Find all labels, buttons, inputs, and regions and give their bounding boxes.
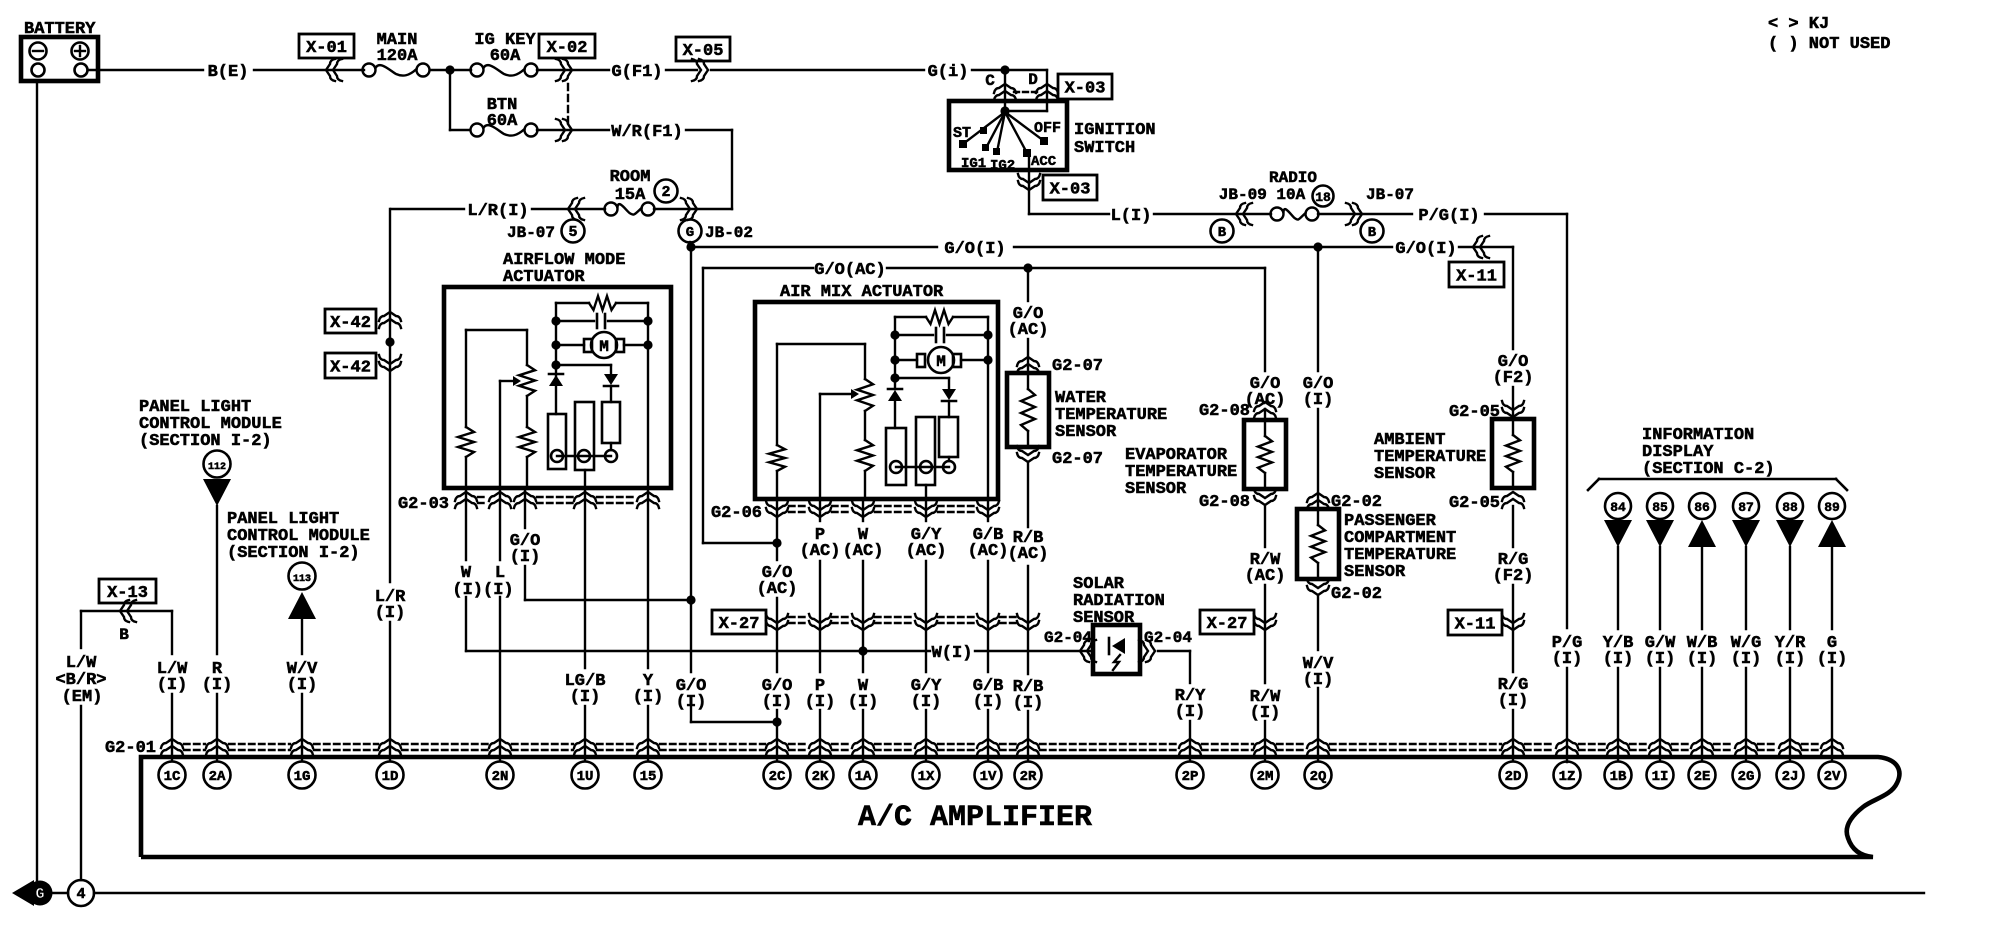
wire R/W to pin 2M <box>1245 505 1286 761</box>
junction JB-07 B <box>1318 203 1412 243</box>
svg-text:2: 2 <box>661 184 670 201</box>
svg-text:X-42: X-42 <box>330 314 371 333</box>
ignition switch label <box>1074 121 1156 158</box>
svg-text:2V: 2V <box>1824 769 1841 785</box>
svg-text:OFF: OFF <box>1034 120 1061 137</box>
svg-text:(AC): (AC) <box>1008 321 1049 340</box>
svg-text:(I): (I) <box>202 676 233 695</box>
pin 2P <box>1177 762 1204 789</box>
svg-text:G2-05: G2-05 <box>1449 494 1500 513</box>
svg-text:X-42: X-42 <box>330 359 371 378</box>
ground junction 4 <box>52 880 94 906</box>
svg-text:(AC): (AC) <box>757 580 798 599</box>
svg-text:60A: 60A <box>487 112 518 131</box>
connector G2-04 right <box>1139 629 1192 662</box>
connector G2-01 row <box>105 739 1843 758</box>
svg-text:(SECTION I-2): (SECTION I-2) <box>139 432 272 451</box>
svg-text:(AC): (AC) <box>1008 545 1049 564</box>
svg-text:X-02: X-02 <box>547 39 588 58</box>
svg-text:X-03: X-03 <box>1065 80 1106 99</box>
connector X-03 bottom <box>1018 155 1097 214</box>
labels W L (I)(I) <box>452 564 513 600</box>
pin 1D <box>377 762 404 789</box>
air mix actuator <box>755 283 998 499</box>
wire R/G to pin 2D <box>1493 506 1534 761</box>
battery <box>21 20 98 81</box>
wire W/V(I) to pin 1G <box>287 619 318 761</box>
connector G2-02 bottom <box>1307 579 1382 604</box>
svg-text:(AC): (AC) <box>906 542 947 561</box>
svg-text:ACC: ACC <box>1031 154 1057 170</box>
wire L/W(I) to pin 1C <box>157 611 188 761</box>
wire W(I) horizontal <box>466 644 1093 663</box>
svg-text:(AC): (AC) <box>968 542 1009 561</box>
svg-text:5: 5 <box>568 224 577 241</box>
svg-text:X-01: X-01 <box>306 39 347 58</box>
svg-text:(AC): (AC) <box>843 542 884 561</box>
svg-text:2D: 2D <box>1505 769 1522 785</box>
svg-text:(I): (I) <box>1552 650 1583 669</box>
pin 2Q <box>1305 762 1332 789</box>
connector G2-04 left <box>1044 629 1096 662</box>
wire W/R down to ROOM fuse <box>731 130 733 209</box>
fuse RADIO 10A <box>1219 169 1414 221</box>
svg-text:(I): (I) <box>510 548 541 567</box>
wire G/W(I) to amplifier <box>1645 547 1676 761</box>
svg-text:(I): (I) <box>633 688 664 707</box>
wire L(I) ignition to RADIO fuse <box>1029 203 1271 226</box>
svg-text:G/O(I): G/O(I) <box>1395 240 1456 259</box>
wire R(I) to pin 2A <box>202 506 233 761</box>
svg-text:(AC): (AC) <box>1245 567 1286 586</box>
A/C amplifier box <box>141 757 1899 857</box>
connector X-42 upper <box>325 309 401 333</box>
wire R/Y to pin 2P <box>1158 651 1206 761</box>
evaporator temperature sensor <box>1125 420 1286 499</box>
pin 1B <box>1605 762 1632 789</box>
connector G2-05 top <box>1449 401 1524 422</box>
wire LG/B(I) to pin 1U <box>565 488 606 761</box>
svg-text:1U: 1U <box>577 769 594 785</box>
svg-text:(I)(I): (I)(I) <box>452 581 513 600</box>
wire L/R(I) room fuse row <box>391 198 605 221</box>
pin 1U <box>572 762 599 789</box>
svg-text:X-27: X-27 <box>1207 615 1248 634</box>
connector G2-07 top <box>1017 357 1103 376</box>
svg-text:89: 89 <box>1824 500 1840 515</box>
wire W(AC) to pin 1A <box>843 499 884 761</box>
fuse IG KEY 60A <box>471 31 538 77</box>
svg-text:(SECTION C-2): (SECTION C-2) <box>1642 460 1775 479</box>
svg-text:SENSOR: SENSOR <box>1055 423 1117 442</box>
wire P/G down to pin 1Z <box>1566 214 1568 762</box>
pin 2R <box>1015 762 1042 789</box>
svg-text:G2-07: G2-07 <box>1052 450 1103 469</box>
svg-text:(I): (I) <box>1175 703 1206 722</box>
connector X-01 <box>299 34 354 81</box>
pin 1C <box>159 762 186 789</box>
svg-text:(I): (I) <box>1603 650 1634 669</box>
fuse ROOM 15A <box>605 168 678 216</box>
svg-text:(I): (I) <box>1645 650 1676 669</box>
wire W/V to pin 2Q <box>1303 595 1334 761</box>
svg-text:JB-02: JB-02 <box>705 224 753 242</box>
solar radiation sensor label <box>1073 575 1165 628</box>
information display terminal 88 <box>1776 493 1804 547</box>
pin 1I <box>1647 762 1674 789</box>
wire battery negative to ground <box>36 81 38 880</box>
svg-text:G/O(I): G/O(I) <box>944 240 1005 259</box>
svg-text:(I): (I) <box>1498 692 1529 711</box>
connector G2-05 bottom <box>1449 492 1524 513</box>
svg-text:(I): (I) <box>1303 391 1334 410</box>
svg-text:2P: 2P <box>1182 769 1199 785</box>
pin 1G <box>289 762 316 789</box>
wire W/B(I) to amplifier <box>1687 547 1718 761</box>
connector G2-03 row <box>398 492 659 514</box>
svg-text:W/R(F1): W/R(F1) <box>611 123 682 142</box>
svg-text:B(E): B(E) <box>208 63 249 82</box>
pin 2A <box>204 762 231 789</box>
wire MAIN fuse to IG KEY fuse <box>430 65 471 74</box>
panel light control module 112 arrow <box>203 451 231 507</box>
svg-text:(I): (I) <box>1817 650 1848 669</box>
wire P/G(I) label <box>1552 634 1583 669</box>
svg-text:(I): (I) <box>1687 650 1718 669</box>
wire B(E) battery to X-01 <box>88 63 364 82</box>
passenger compartment temperature sensor <box>1297 509 1456 582</box>
svg-text:2K: 2K <box>812 769 829 785</box>
connector X-05 <box>676 37 730 81</box>
connector X-27 row <box>712 610 1039 634</box>
pin 2C <box>764 762 791 789</box>
svg-text:B: B <box>119 626 129 644</box>
wire G/O(AC) left loop <box>703 268 782 548</box>
svg-text:G2-06: G2-06 <box>711 504 762 523</box>
pin 2E <box>1689 762 1716 789</box>
svg-text:G(i): G(i) <box>928 63 969 82</box>
wire G(i) to ignition switch <box>711 63 1047 82</box>
connector X-11 bottom <box>1448 610 1524 635</box>
svg-text:2A: 2A <box>209 769 226 785</box>
connector X-11 top <box>1449 262 1504 287</box>
svg-text:RADIO: RADIO <box>1269 169 1317 187</box>
pin 2D <box>1500 762 1527 789</box>
ground wire <box>94 892 1924 894</box>
wire room fuse to JB-02 <box>654 198 732 220</box>
pin 2N <box>487 762 514 789</box>
svg-text:(I): (I) <box>375 604 406 623</box>
svg-text:1I: 1I <box>1652 769 1669 785</box>
svg-text:SENSOR: SENSOR <box>1374 465 1436 484</box>
wire G/O(AC) to pin 2C <box>757 499 798 761</box>
svg-text:G2-04: G2-04 <box>1144 629 1192 647</box>
connector X-42 lower <box>325 353 401 378</box>
wire G/O(AC) to water temperature sensor <box>1008 268 1049 373</box>
svg-text:112: 112 <box>208 462 226 473</box>
svg-text:84: 84 <box>1610 500 1626 515</box>
svg-text:1D: 1D <box>382 769 399 785</box>
information display terminal 87 <box>1732 493 1760 547</box>
wire R/B to pin 2R <box>1008 463 1049 761</box>
wire G/O(F2) to ambient sensor <box>1493 247 1534 419</box>
svg-text:2J: 2J <box>1782 769 1799 785</box>
connector G2-08 bottom <box>1199 489 1276 512</box>
svg-text:15A: 15A <box>615 186 646 205</box>
connector G2-02 top <box>1307 493 1382 512</box>
svg-text:2M: 2M <box>1257 769 1274 785</box>
connector G2-06 row <box>711 501 999 523</box>
svg-text:JB-07: JB-07 <box>1366 186 1414 204</box>
svg-text:2N: 2N <box>492 769 509 785</box>
svg-text:2E: 2E <box>1694 769 1711 785</box>
svg-text:2Q: 2Q <box>1310 769 1327 785</box>
svg-text:1B: 1B <box>1610 769 1627 785</box>
svg-text:X-11: X-11 <box>1455 616 1496 635</box>
wire G/O(I) main horizontal <box>686 236 1513 259</box>
information display label <box>1642 426 1775 479</box>
wire W/R(F1) <box>537 119 732 142</box>
svg-text:SENSOR: SENSOR <box>1344 563 1406 582</box>
svg-text:ROOM: ROOM <box>610 168 651 187</box>
wire Y(I) to pin 15 <box>633 488 664 761</box>
svg-text:(I): (I) <box>1775 650 1806 669</box>
pin 1X <box>913 762 940 789</box>
wire L/W <B/R> (EM) to ground circle 4 <box>55 611 106 880</box>
svg-text:X-11: X-11 <box>1456 268 1497 287</box>
svg-text:C: C <box>985 72 995 90</box>
svg-text:(F2): (F2) <box>1493 567 1534 586</box>
connector X-27 right <box>1200 610 1276 634</box>
svg-text:(I): (I) <box>287 676 318 695</box>
svg-text:SWITCH: SWITCH <box>1074 139 1135 158</box>
svg-text:G: G <box>35 886 44 903</box>
svg-text:85: 85 <box>1652 500 1668 515</box>
svg-text:X-27: X-27 <box>719 615 760 634</box>
information display terminal 89 <box>1818 493 1846 547</box>
fuse BTN 60A <box>471 96 538 137</box>
svg-text:G2-07: G2-07 <box>1052 357 1103 376</box>
svg-text:ACTUATOR: ACTUATOR <box>503 268 585 287</box>
panel light control module 112 label <box>139 398 282 451</box>
wire L/R(I) to pin 1D <box>375 209 406 761</box>
svg-text:X-05: X-05 <box>683 42 724 61</box>
pin 15 <box>635 762 662 789</box>
junction JB-09 B <box>1211 220 1234 243</box>
information display bracket <box>1588 479 1847 490</box>
wire G/O(I) from airflow pot <box>510 488 691 600</box>
connector X-13 <box>81 579 172 644</box>
panel light control module 113 label <box>227 510 370 563</box>
ignition switch <box>949 70 1067 174</box>
svg-text:( ) NOT USED: ( ) NOT USED <box>1768 35 1890 54</box>
svg-text:SENSOR: SENSOR <box>1125 480 1187 499</box>
svg-text:G2-02: G2-02 <box>1331 585 1382 604</box>
svg-text:G/O(AC): G/O(AC) <box>814 261 885 280</box>
wire Y/R(I) to amplifier <box>1775 547 1806 761</box>
svg-text:(AC): (AC) <box>800 542 841 561</box>
junction JB-02 G <box>679 220 754 243</box>
svg-text:1V: 1V <box>980 769 997 785</box>
panel light control module 113 arrow <box>288 563 316 620</box>
pin 1Z <box>1554 762 1581 789</box>
wire G(F1) <box>611 63 697 82</box>
ignition switch connector X-03 top <box>985 71 1112 100</box>
wire W/G(I) to amplifier <box>1731 547 1762 761</box>
svg-text:2G: 2G <box>1738 769 1755 785</box>
connector G2-07 bottom <box>1017 446 1103 469</box>
connector X-02 <box>537 34 609 124</box>
fuse MAIN 120A <box>363 31 430 77</box>
svg-text:(F2): (F2) <box>1493 369 1534 388</box>
svg-text:M: M <box>936 353 946 371</box>
svg-text:IG2: IG2 <box>990 158 1015 174</box>
information display terminal 84 <box>1604 493 1632 547</box>
wire G/O(AC) horizontal <box>703 261 1265 280</box>
svg-text:2R: 2R <box>1020 769 1037 785</box>
information display terminal 85 <box>1646 493 1674 547</box>
wire G/B(AC) to pin 1V <box>968 499 1009 761</box>
svg-text:1X: 1X <box>918 769 935 785</box>
wire Y/B(I) to amplifier <box>1603 547 1634 761</box>
svg-text:2C: 2C <box>769 769 786 785</box>
svg-text:IG1: IG1 <box>961 156 986 172</box>
svg-text:B: B <box>1368 225 1377 241</box>
svg-text:M: M <box>599 338 609 356</box>
svg-text:AIR MIX ACTUATOR: AIR MIX ACTUATOR <box>780 283 944 302</box>
svg-text:P/G(I): P/G(I) <box>1418 207 1479 226</box>
svg-text:(I): (I) <box>1731 650 1762 669</box>
wire P/G(I) <box>1418 207 1567 226</box>
svg-text:4: 4 <box>76 886 85 903</box>
svg-text:X-03: X-03 <box>1050 181 1091 200</box>
svg-text:1C: 1C <box>164 769 181 785</box>
svg-text:JB-09 10A: JB-09 10A <box>1219 186 1306 204</box>
svg-text:15: 15 <box>640 769 657 785</box>
note KJ legend <box>1768 15 1890 54</box>
svg-text:86: 86 <box>1694 500 1710 515</box>
wire G/O(I) to passenger sensor <box>1303 247 1334 509</box>
wire G(I) to amplifier <box>1817 547 1848 761</box>
svg-text:(I): (I) <box>157 676 188 695</box>
pin 2V <box>1819 762 1846 789</box>
svg-text:88: 88 <box>1782 500 1798 515</box>
wire W(I) from airflow actuator <box>465 488 467 651</box>
pin 1A <box>850 762 877 789</box>
connector G2-08 top <box>1199 402 1276 421</box>
airflow mode actuator <box>444 251 671 488</box>
wire BTN branch <box>450 70 470 130</box>
svg-text:L/R(I): L/R(I) <box>467 202 528 221</box>
svg-text:(AC): (AC) <box>1245 391 1286 410</box>
svg-text:(I): (I) <box>570 688 601 707</box>
svg-text:ST: ST <box>953 125 971 142</box>
svg-text:G: G <box>686 225 694 241</box>
ambient temperature sensor <box>1374 419 1534 488</box>
svg-text:60A: 60A <box>490 47 521 66</box>
wire G/O(AC) to evaporator sensor <box>1245 268 1286 420</box>
svg-text:A/C AMPLIFIER: A/C AMPLIFIER <box>858 801 1092 835</box>
pin 2J <box>1777 762 1804 789</box>
pin 2G <box>1733 762 1760 789</box>
svg-text:(EM): (EM) <box>62 688 103 707</box>
svg-text:B: B <box>1218 225 1227 241</box>
svg-text:18: 18 <box>1315 190 1331 205</box>
junction JB-07 5 <box>507 220 585 243</box>
svg-text:W(I): W(I) <box>932 644 973 663</box>
svg-text:JB-07: JB-07 <box>507 224 555 242</box>
svg-text:1G: 1G <box>294 769 311 785</box>
water temperature sensor <box>1007 373 1167 447</box>
svg-text:87: 87 <box>1738 500 1754 515</box>
ground symbol G <box>12 880 53 906</box>
svg-text:G(F1): G(F1) <box>611 63 662 82</box>
svg-text:(SECTION I-2): (SECTION I-2) <box>227 544 360 563</box>
svg-text:G2-08: G2-08 <box>1199 493 1250 512</box>
wire L(I) to pin 2N <box>499 488 501 761</box>
pin 2M <box>1252 762 1279 789</box>
pin 2K <box>807 762 834 789</box>
svg-text:< > KJ: < > KJ <box>1768 15 1829 34</box>
svg-text:BATTERY: BATTERY <box>24 20 96 39</box>
svg-text:113: 113 <box>293 574 311 585</box>
svg-text:L(I): L(I) <box>1111 207 1152 226</box>
svg-text:IGNITION: IGNITION <box>1074 121 1156 140</box>
wire G/Y(AC) to pin 1X <box>906 499 947 761</box>
svg-text:1A: 1A <box>855 769 872 785</box>
solar radiation sensor <box>1093 625 1140 674</box>
wire G/O vertical from JB-02 <box>676 247 782 727</box>
information display terminal 86 <box>1688 493 1716 547</box>
pin 1V <box>975 762 1002 789</box>
svg-text:1Z: 1Z <box>1559 769 1576 785</box>
svg-text:D: D <box>1028 71 1038 89</box>
svg-text:120A: 120A <box>377 47 419 66</box>
wire P(AC) to pin 2K <box>800 499 841 761</box>
svg-text:G2-03: G2-03 <box>398 495 449 514</box>
